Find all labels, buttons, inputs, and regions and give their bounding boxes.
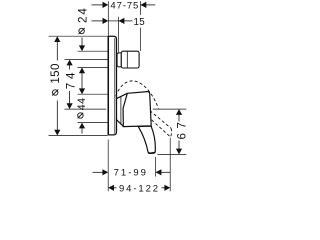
dashed lever lower edge [148,116,171,137]
diameter symbol d44 [78,113,83,118]
arrow 15 left [103,18,109,24]
svg-text:71-99: 71-99 [114,168,148,179]
svg-text:67: 67 [176,118,189,140]
dimension 15 connector [108,20,118,22]
dimension d24 line lower tail [81,73,83,90]
extension line handle cone bottom [78,122,109,124]
dashed lever tip [170,128,171,137]
extension line plate top [49,35,109,37]
extension line knob front lower [140,28,142,51]
escutcheon plate left edge thick [107,37,109,136]
arrow 15 right [119,18,125,24]
escutcheon plate outline [108,36,116,135]
dimension 94-122 line left [113,187,117,189]
handle cap body [123,92,151,127]
arrow 71-99 left [102,169,108,175]
dimension d150 line lower [56,101,58,132]
extension line wall plane bottom [107,140,109,192]
extension line knob axis [65,59,108,61]
extension line lever tip bottom [155,157,157,177]
extension line knob front upper [140,1,142,15]
dimension 71-99 leader left [93,171,104,173]
arrow 74 top [67,60,73,66]
svg-text:94-122: 94-122 [119,183,160,194]
handle cone front line [120,96,122,124]
dimension 15 leader right [119,20,133,22]
handle lever tip accent [149,151,156,154]
dimension 67 line upper [178,114,180,122]
arrow d24 top [79,45,85,51]
diameter symbol d24 [79,28,84,33]
arrow 94-122 right [164,185,170,191]
arrow d150 bottom [54,130,60,136]
handle cone bottom edge [117,120,124,126]
arrow d24 bottom [79,68,85,74]
diameter symbol d150 [53,90,58,95]
handle cone top edge [117,93,128,98]
extension line sleeve front top [118,17,120,55]
dimension 74 line lower [69,91,71,105]
dimension 71-99 leader right [156,171,171,173]
arrow d150 top [54,36,60,42]
arrow d44 top [79,88,85,94]
arrow 67 top [176,109,182,115]
dimension d24 line upper [81,38,83,47]
diverter knob body [121,51,139,68]
extension line lever tip level [158,153,187,155]
arrow 67 bottom [176,149,182,155]
diverter knob neck [117,53,121,67]
extension line handle cone top [78,93,108,95]
extension line wall plane top [107,1,109,36]
dimension 67 line lower [178,141,180,150]
svg-text:74: 74 [65,69,78,90]
arrow 47-75 right [141,2,147,8]
dimension 15 leader left [92,20,104,22]
extension line plate bottom [49,135,108,137]
extension line handle axis right [153,108,187,110]
svg-text:150: 150 [49,63,62,84]
dimension 47-75 leader left [92,4,104,6]
dashed lever upper edge [150,111,171,129]
dimension 47-75 leader right [141,4,156,6]
diverter knob step line [126,52,128,68]
dimension 74 line upper [69,64,71,70]
dimension d150 line upper [56,40,58,61]
arrow 94-122 left [108,185,114,191]
extension line knob top [78,50,108,52]
svg-text:47-75: 47-75 [110,1,139,12]
arrow 47-75 left [103,2,109,8]
dimension d44 line lower tail [81,128,83,134]
handle lever [138,126,155,153]
arrow 71-99 right [156,169,162,175]
svg-text:15: 15 [134,17,146,28]
svg-text:24: 24 [76,6,89,23]
dimension 94-122 line right [162,187,165,189]
extension line knob bottom [78,67,108,69]
escutcheon plate inner line [114,38,116,134]
arrow 74 bottom [67,103,73,109]
dashed swivel arc [116,81,159,109]
extension line handle axis left [65,108,107,110]
arrow d44 bottom [79,123,85,129]
extension line dashed lever tip [169,138,171,192]
svg-text:44: 44 [76,98,88,111]
